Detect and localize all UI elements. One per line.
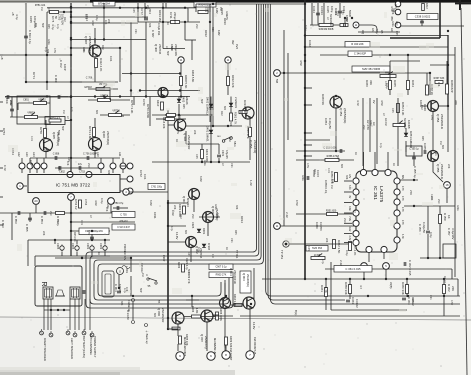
svg-text:C 756 1000P: C 756 1000P	[83, 153, 97, 156]
svg-text:22K: 22K	[447, 164, 450, 169]
svg-text:0.01: 0.01	[327, 168, 330, 173]
svg-text:C 687: C 687	[151, 30, 155, 38]
svg-text:10K: 10K	[47, 7, 50, 12]
svg-text:820: 820	[170, 46, 173, 51]
svg-text:22K: 22K	[451, 286, 455, 291]
svg-text:R904: R904	[191, 306, 195, 313]
svg-text:22K: 22K	[193, 130, 196, 135]
svg-text:0.5V: 0.5V	[430, 115, 433, 120]
svg-text:B(L): B(L)	[294, 310, 298, 315]
svg-text:TP 351: TP 351	[280, 250, 284, 259]
svg-text:2SC: 2SC	[362, 125, 365, 130]
svg-text:820: 820	[34, 23, 37, 28]
svg-text:33K: 33K	[229, 122, 232, 127]
svg-text:3.4V: 3.4V	[348, 185, 350, 190]
svg-text:820: 820	[441, 145, 444, 150]
svg-text:C344: C344	[312, 6, 316, 13]
svg-text:R771: R771	[32, 72, 36, 79]
svg-text:GMA: GMA	[369, 120, 372, 126]
svg-text:4.5V: 4.5V	[299, 60, 303, 66]
svg-text:C761 100μ: C761 100μ	[151, 186, 163, 188]
svg-text:C 702: C 702	[59, 60, 63, 68]
svg-text:56P: 56P	[187, 269, 190, 274]
svg-text:2SA933Q: 2SA933Q	[253, 140, 257, 154]
svg-text:1.2V: 1.2V	[249, 180, 253, 186]
svg-text:0.01: 0.01	[84, 14, 87, 19]
svg-text:R410: R410	[156, 100, 160, 107]
svg-text:GMA: GMA	[47, 39, 50, 45]
svg-text:0.22μ/50: 0.22μ/50	[422, 222, 426, 233]
svg-text:22K: 22K	[334, 11, 337, 16]
svg-text:22K: 22K	[146, 5, 149, 10]
svg-text:C91: C91	[429, 295, 432, 300]
svg-text:Q 407: Q 407	[84, 36, 88, 45]
svg-text:1M: 1M	[330, 185, 333, 188]
svg-text:AUTO ANTENNA: AUTO ANTENNA	[89, 334, 93, 355]
svg-text:Q406: Q406	[102, 131, 106, 138]
svg-text:C91: C91	[73, 237, 76, 242]
svg-text:R369 82P: R369 82P	[450, 80, 454, 93]
svg-text:10K: 10K	[66, 161, 69, 166]
svg-text:100μ: 100μ	[197, 247, 200, 253]
svg-text:C 755: C 755	[120, 213, 127, 216]
svg-text:1M2: 1M2	[217, 30, 221, 36]
svg-text:0.4V: 0.4V	[9, 100, 13, 106]
svg-text:R35: R35	[47, 24, 50, 29]
svg-text:C91: C91	[134, 29, 137, 34]
svg-text:220μ/40V: 220μ/40V	[174, 44, 178, 56]
svg-text:1K: 1K	[166, 22, 169, 25]
svg-text:C 355 1μ: C 355 1μ	[409, 149, 419, 151]
svg-text:4.5μ/25: 4.5μ/25	[225, 150, 229, 159]
svg-text:R12: R12	[206, 7, 209, 12]
svg-text:R913 1M: R913 1M	[158, 10, 162, 22]
svg-text:Q 906: Q 906	[157, 308, 161, 316]
svg-text:R12: R12	[101, 45, 104, 50]
svg-text:0.5V: 0.5V	[225, 15, 228, 20]
svg-text:22K: 22K	[325, 238, 328, 243]
svg-text:VCC: VCC	[5, 98, 9, 104]
svg-text:C354: C354	[324, 118, 328, 125]
svg-text:56P: 56P	[61, 126, 64, 131]
svg-text:R366 9K: R366 9K	[321, 94, 325, 105]
svg-text:0V2: 0V2	[235, 44, 239, 49]
svg-text:C365: C365	[423, 143, 427, 150]
svg-text:R761 1.8K: R761 1.8K	[88, 126, 92, 139]
svg-text:GMA: GMA	[203, 160, 206, 166]
svg-text:4.9V: 4.9V	[94, 200, 98, 206]
svg-text:D901: D901	[202, 228, 206, 235]
svg-text:C907 0.1μ: C907 0.1μ	[215, 266, 227, 269]
svg-text:10K: 10K	[437, 82, 440, 87]
svg-text:2.7V: 2.7V	[401, 196, 403, 201]
svg-text:22K: 22K	[42, 231, 45, 236]
svg-text:C935: C935	[29, 16, 33, 23]
svg-text:470μ/10: 470μ/10	[119, 221, 128, 223]
svg-text:2SC: 2SC	[343, 218, 346, 223]
svg-text:C 362 0.015: C 362 0.015	[408, 260, 412, 276]
svg-text:4.7μ: 4.7μ	[15, 14, 19, 20]
svg-text:VR753: VR753	[112, 110, 120, 113]
svg-text:2SC: 2SC	[49, 211, 52, 216]
svg-text:2.4V: 2.4V	[285, 212, 289, 218]
svg-text:R361: R361	[320, 285, 324, 292]
svg-text:R912 22K: R912 22K	[231, 75, 235, 88]
svg-text:SVR 351 50KB: SVR 351 50KB	[362, 67, 380, 71]
svg-text:100μ: 100μ	[330, 6, 334, 13]
svg-text:R751 4.7: R751 4.7	[50, 117, 60, 120]
svg-text:Q 907: Q 907	[200, 334, 204, 342]
svg-text:0.7V: 0.7V	[3, 165, 7, 171]
svg-text:S: S	[119, 270, 121, 274]
svg-text:C901: C901	[86, 243, 90, 250]
svg-text:22K: 22K	[430, 196, 433, 201]
svg-text:R12: R12	[220, 111, 223, 116]
svg-text:22K: 22K	[173, 205, 176, 210]
svg-text:C91: C91	[82, 48, 85, 53]
svg-text:Q405: Q405	[52, 132, 56, 139]
svg-text:0.01: 0.01	[216, 213, 219, 218]
svg-text:C 356: C 356	[418, 224, 422, 232]
svg-text:C 361 0.015: C 361 0.015	[345, 267, 361, 271]
svg-text:4.7μ: 4.7μ	[56, 221, 59, 226]
svg-text:R12: R12	[140, 268, 143, 273]
svg-text:C45: C45	[391, 108, 394, 113]
svg-text:33K: 33K	[120, 301, 123, 306]
svg-text:R35: R35	[395, 31, 398, 36]
svg-text:55: 55	[157, 300, 161, 304]
svg-text:A13: A13	[25, 152, 29, 157]
svg-text:1K: 1K	[447, 215, 451, 219]
svg-text:33K: 33K	[107, 170, 110, 175]
svg-text:2SC: 2SC	[195, 24, 198, 29]
svg-text:C45: C45	[195, 154, 198, 159]
svg-text:+B: +B	[0, 56, 4, 60]
svg-text:33K: 33K	[392, 8, 395, 13]
svg-text:C 706: C 706	[86, 77, 93, 80]
svg-text:4.7V: 4.7V	[356, 100, 360, 106]
svg-text:27V: 27V	[409, 190, 413, 195]
svg-text:C91: C91	[230, 238, 233, 243]
svg-text:100μ: 100μ	[157, 23, 160, 29]
svg-text:0.01: 0.01	[30, 136, 33, 141]
svg-text:1M: 1M	[228, 138, 231, 141]
svg-text:2SC: 2SC	[191, 214, 194, 219]
svg-text:RIGHT SPEAKER: RIGHT SPEAKER	[43, 338, 47, 361]
svg-text:2SC: 2SC	[93, 38, 96, 43]
svg-text:C 908: C 908	[54, 75, 58, 83]
svg-text:4.7μ: 4.7μ	[375, 29, 378, 34]
svg-text:R 362: R 362	[447, 284, 451, 292]
svg-text:4.7μ: 4.7μ	[170, 226, 173, 231]
svg-text:A11: A11	[118, 152, 122, 157]
svg-text:2SC: 2SC	[395, 21, 398, 26]
svg-text:0.01: 0.01	[143, 174, 147, 180]
svg-text:0.5V: 0.5V	[44, 147, 47, 152]
svg-text:C: C	[146, 274, 148, 277]
svg-text:R912: R912	[204, 30, 208, 37]
svg-text:R365: R365	[393, 80, 397, 87]
svg-text:C902: C902	[99, 243, 103, 250]
svg-text:13.8V: 13.8V	[252, 322, 256, 330]
svg-text:R: R	[40, 281, 47, 286]
svg-text:R759: R759	[39, 127, 43, 134]
svg-text:0V: 0V	[348, 196, 350, 199]
svg-text:R909 27K: R909 27K	[187, 272, 191, 284]
svg-text:C45: C45	[187, 252, 190, 257]
svg-text:SB-1: SB-1	[233, 141, 237, 147]
svg-text:3.3μ/10V: 3.3μ/10V	[451, 228, 455, 239]
svg-text:R367 33K: R367 33K	[434, 77, 445, 80]
svg-text:C91: C91	[434, 151, 437, 156]
svg-text:C91: C91	[341, 10, 344, 15]
svg-text:L902: L902	[162, 255, 166, 262]
svg-text:R12: R12	[30, 163, 33, 168]
svg-text:MAIN/MW+B: MAIN/MW+B	[213, 338, 217, 354]
svg-text:C 357: C 357	[447, 228, 451, 236]
svg-text:0.5V: 0.5V	[450, 300, 453, 305]
svg-text:1K: 1K	[329, 24, 332, 27]
svg-text:⏚ Back up: ⏚ Back up	[145, 330, 149, 344]
svg-text:10K: 10K	[331, 179, 334, 184]
svg-text:C852: C852	[59, 171, 65, 174]
svg-text:SVR332 50KB: SVR332 50KB	[319, 29, 334, 31]
svg-text:GMA: GMA	[214, 204, 217, 210]
svg-text:C342: C342	[308, 40, 312, 47]
svg-text:C 854: C 854	[40, 216, 44, 224]
svg-text:4.7: 4.7	[359, 285, 363, 289]
svg-text:Q 408: Q 408	[154, 44, 158, 52]
svg-text:Q 903: Q 903	[242, 273, 246, 281]
svg-text:R12: R12	[313, 169, 316, 174]
svg-text:1K: 1K	[175, 139, 178, 142]
svg-text:R757 3.3K: R757 3.3K	[130, 100, 134, 113]
svg-text:1K: 1K	[443, 276, 446, 279]
svg-text:33K: 33K	[345, 175, 348, 180]
svg-text:IC 751 MB 3722: IC 751 MB 3722	[56, 182, 91, 187]
svg-text:4.7μ: 4.7μ	[321, 259, 324, 264]
svg-text:R753: R753	[2, 128, 6, 135]
svg-text:R12: R12	[420, 105, 423, 110]
svg-text:+B: +B	[11, 12, 15, 16]
svg-text:1K: 1K	[354, 152, 357, 155]
svg-text:LEFT SPEAKER: LEFT SPEAKER	[70, 338, 74, 359]
svg-text:820: 820	[153, 313, 156, 318]
svg-text:R903 27K: R903 27K	[216, 274, 227, 277]
svg-text:0.0022: 0.0022	[355, 299, 359, 308]
svg-text:4.7μ: 4.7μ	[70, 107, 73, 112]
svg-text:820: 820	[184, 230, 187, 235]
svg-text:C750 47μ: C750 47μ	[113, 202, 124, 205]
svg-text:C363: C363	[351, 297, 355, 304]
svg-text:86V: 86V	[401, 175, 403, 180]
svg-text:SVR352: SVR352	[403, 118, 407, 129]
svg-text:10K: 10K	[104, 20, 107, 25]
svg-text:VR853: VR853	[27, 112, 35, 115]
svg-text:A 13.8V: A 13.8V	[126, 310, 130, 320]
svg-text:D401 GMA01: D401 GMA01	[206, 126, 210, 142]
svg-text:2SC536(R): 2SC536(R)	[106, 131, 110, 145]
svg-text:C91: C91	[57, 137, 60, 142]
svg-text:100KB: 100KB	[407, 120, 411, 129]
svg-text:0.01: 0.01	[80, 220, 83, 225]
svg-text:6.8V: 6.8V	[199, 176, 203, 182]
svg-text:FM CONT: FM CONT	[229, 348, 233, 361]
svg-text:C905: C905	[56, 243, 60, 250]
svg-text:FM FRONT+B: FM FRONT+B	[253, 337, 257, 355]
svg-text:47K: 47K	[454, 100, 458, 105]
svg-text:C762: C762	[139, 170, 143, 177]
svg-text:R 911: R 911	[157, 28, 161, 36]
svg-text:A5: A5	[380, 30, 384, 34]
svg-text:2SC2021R: 2SC2021R	[440, 114, 444, 130]
svg-text:R366: R366	[365, 80, 369, 87]
svg-text:C338 0.0022: C338 0.0022	[415, 14, 431, 18]
svg-text:C 853: C 853	[1, 220, 5, 228]
svg-text:2.4V: 2.4V	[339, 260, 343, 266]
svg-text:1M: 1M	[141, 273, 144, 276]
svg-text:0.5V: 0.5V	[306, 163, 309, 168]
svg-text:C45: C45	[140, 263, 143, 268]
svg-text:Q 354: Q 354	[436, 114, 440, 123]
svg-text:C760: C760	[142, 99, 146, 106]
svg-text:A6: A6	[371, 28, 375, 32]
svg-text:R35: R35	[411, 298, 414, 303]
svg-text:100μ: 100μ	[178, 115, 181, 121]
svg-text:D 903: D 903	[207, 243, 211, 250]
svg-text:C 856: C 856	[53, 153, 60, 156]
svg-text:100μ: 100μ	[95, 15, 98, 21]
svg-text:2.7V: 2.7V	[401, 207, 403, 212]
svg-text:1M: 1M	[62, 110, 65, 113]
svg-text:C91: C91	[230, 163, 233, 168]
svg-text:IC 351: IC 351	[373, 186, 378, 200]
svg-text:56P: 56P	[345, 17, 348, 22]
svg-text:R313 3.3K: R313 3.3K	[243, 100, 247, 113]
svg-text:4.7μ: 4.7μ	[51, 24, 55, 30]
svg-text:4.7μ: 4.7μ	[44, 47, 47, 52]
svg-text:A14: A14	[32, 152, 36, 157]
svg-text:Q 904: Q 904	[229, 268, 233, 276]
svg-text:7.6V: 7.6V	[348, 216, 350, 221]
svg-text:R909 33K: R909 33K	[229, 336, 233, 348]
svg-text:0.5V: 0.5V	[53, 48, 56, 53]
svg-text:A4 0V: A4 0V	[384, 118, 388, 126]
svg-text:820: 820	[95, 110, 98, 115]
svg-text:R317: R317	[425, 3, 429, 10]
svg-text:C 833 4.7μ: C 833 4.7μ	[28, 30, 32, 44]
svg-text:2.4V: 2.4V	[348, 236, 350, 241]
svg-text:Q 351: Q 351	[339, 108, 343, 117]
svg-text:R413 22K: R413 22K	[162, 117, 166, 129]
svg-text:56P: 56P	[166, 51, 169, 56]
svg-text:0.01: 0.01	[109, 56, 113, 62]
svg-text:C 853: C 853	[14, 216, 18, 224]
svg-text:100μ: 100μ	[429, 232, 432, 238]
svg-text:R359 33K: R359 33K	[344, 282, 348, 295]
svg-text:5M: 5M	[275, 79, 279, 84]
svg-text:1M: 1M	[211, 254, 214, 257]
svg-text:2.6V: 2.6V	[348, 227, 350, 232]
svg-text:1.8K: 1.8K	[195, 308, 199, 314]
svg-text:C 913 0.047: C 913 0.047	[117, 227, 130, 229]
svg-text:R 343 22K: R 343 22K	[351, 42, 364, 46]
svg-text:2SC: 2SC	[87, 163, 90, 168]
svg-text:0.5V: 0.5V	[87, 230, 90, 235]
svg-text:1K: 1K	[392, 163, 395, 166]
svg-text:POWER SUPPLY: POWER SUPPLY	[93, 336, 97, 358]
svg-text:100P: 100P	[63, 64, 67, 71]
svg-text:GMA: GMA	[106, 203, 109, 209]
svg-text:LA3375: LA3375	[379, 186, 384, 203]
svg-text:C345: C345	[326, 6, 330, 13]
svg-text:GMA: GMA	[391, 21, 394, 27]
svg-text:R906 100K: R906 100K	[219, 308, 223, 321]
svg-text:56P: 56P	[336, 155, 339, 160]
svg-text:A12: A12	[17, 152, 21, 157]
svg-text:C359 0.01: C359 0.01	[324, 180, 328, 193]
svg-text:56P: 56P	[200, 99, 203, 104]
svg-text:2SC: 2SC	[437, 199, 440, 204]
svg-text:R412 4.7K: R412 4.7K	[99, 58, 103, 71]
svg-text:C 364: C 364	[407, 297, 411, 305]
svg-text:A9: A9	[34, 199, 38, 203]
svg-text:IN2: IN2	[231, 40, 235, 45]
svg-text:4.7μ: 4.7μ	[56, 24, 59, 29]
svg-text:50Ω: 50Ω	[57, 130, 61, 135]
svg-text:2SC536: 2SC536	[158, 44, 162, 55]
svg-text:2 GMA01: 2 GMA01	[234, 97, 238, 108]
svg-text:BATTERY(13.8V): BATTERY(13.8V)	[82, 336, 86, 358]
svg-text:0.5V: 0.5V	[295, 200, 299, 206]
svg-text:VR852: VR852	[38, 99, 46, 102]
svg-text:13.8V: 13.8V	[175, 232, 179, 240]
svg-text:TP 351: TP 351	[235, 250, 239, 259]
svg-text:2SA933(R): 2SA933(R)	[246, 274, 250, 287]
svg-text:L 901: L 901	[125, 266, 129, 273]
svg-text:SVR 353: SVR 353	[312, 247, 323, 250]
svg-text:4.7μ: 4.7μ	[379, 143, 382, 148]
svg-text:C753: C753	[79, 171, 85, 174]
svg-text:W(B): W(B)	[389, 282, 393, 288]
svg-text:R35: R35	[421, 136, 424, 141]
svg-text:R12: R12	[179, 214, 182, 219]
svg-text:100μ: 100μ	[385, 83, 388, 89]
svg-text:0.5V: 0.5V	[176, 129, 179, 134]
svg-text:C754: C754	[84, 199, 88, 206]
svg-text:1M: 1M	[439, 141, 442, 144]
svg-text:2SC2021R: 2SC2021R	[440, 164, 444, 180]
svg-text:2SC536(R): 2SC536(R)	[343, 108, 347, 123]
svg-text:0V: 0V	[372, 100, 376, 104]
svg-text:C903: C903	[71, 243, 75, 250]
svg-text:1K: 1K	[97, 252, 100, 255]
svg-text:4.3V: 4.3V	[401, 234, 403, 239]
svg-text:33K: 33K	[235, 205, 238, 210]
svg-text:R752 3.2: R752 3.2	[74, 199, 78, 210]
svg-text:56P: 56P	[41, 23, 44, 28]
svg-text:47μ: 47μ	[78, 163, 83, 166]
svg-text:GP018: GP018	[84, 86, 92, 89]
svg-text:C 346 82P: C 346 82P	[354, 52, 367, 56]
svg-text:1M: 1M	[219, 7, 222, 10]
svg-text:R352 3.3K: R352 3.3K	[401, 102, 405, 115]
svg-text:50KB: 50KB	[348, 10, 352, 17]
svg-text:C401: C401	[221, 150, 225, 157]
svg-text:2SC2021R: 2SC2021R	[161, 308, 165, 322]
svg-text:D403: D403	[182, 96, 186, 103]
svg-text:C45: C45	[132, 8, 135, 13]
